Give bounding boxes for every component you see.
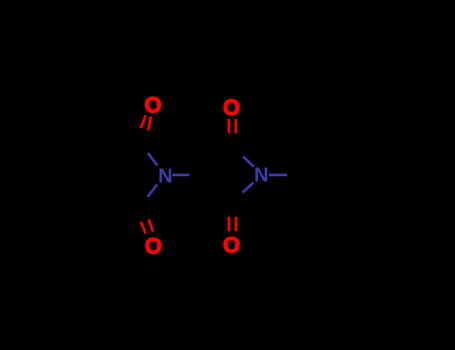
bond C1=O1 red half line b — [148, 117, 151, 131]
red visible bond halves — [141, 115, 236, 234]
wire bond phenyl ring — [313, 140, 333, 175]
wire bond C5-C6 — [27, 154, 30, 196]
wire bond C1=O1 black halves — [140, 128, 145, 141]
bond N2-C2' blue half — [243, 157, 254, 167]
wire bond C7a-C1 — [100, 141, 140, 154]
bond C3=O3 red half line b — [149, 219, 153, 231]
bond C5'=O4 red half line a — [228, 217, 231, 231]
svg-text:N: N — [158, 165, 172, 187]
wire bond C3=O3 black halves — [140, 209, 145, 222]
benzo ring of phthalimide (black, invisible on black bg) — [28, 126, 393, 223]
bond N1-C1 blue half — [148, 153, 158, 166]
wire bond C5'-N2 black half — [232, 188, 247, 202]
bond C1=O1 red half line a — [141, 115, 146, 128]
blue visible bond halves — [148, 153, 288, 197]
wire bond C1-N1 black half — [140, 141, 153, 158]
wire bond C3'-C5' — [214, 175, 233, 201]
svg-text:O: O — [144, 93, 161, 118]
wire bond C3'-C2' — [214, 147, 233, 175]
bond C5'=O4 red half line b — [235, 217, 238, 231]
svg-text:O: O — [223, 95, 240, 120]
wire bond C3-N1 black half — [140, 192, 153, 209]
wire bond C7a-C3a — [99, 154, 102, 196]
svg-text:N: N — [254, 165, 268, 187]
wire bond C3a-C3 — [100, 196, 140, 209]
wire bond C6-C7 — [28, 133, 64, 154]
bond C3=O3 red half line a — [141, 222, 146, 234]
wire bond C7-C7a — [64, 133, 100, 154]
wire bond N1-C3' black half — [189, 174, 213, 177]
bond N2-C5' blue half — [243, 183, 254, 193]
wire bond C2'-N2 black half — [232, 147, 247, 161]
svg-text:O: O — [223, 233, 240, 258]
wire bond C3a-C4 — [64, 196, 100, 217]
wire bond N2-Cipso black half — [287, 174, 313, 177]
bond N1-C3' blue half — [172, 174, 189, 177]
wire bond C5'=O4 black halves — [228, 202, 231, 217]
bond N1-C3 blue half — [148, 185, 158, 197]
bond N2-Cipso blue half — [269, 174, 287, 177]
wire bond C2'=O2 black halves — [228, 133, 231, 146]
bond C2'=O2 red half line b — [235, 119, 238, 133]
bond C2'=O2 red half line a — [228, 119, 231, 133]
svg-text:O: O — [145, 234, 162, 259]
wire bond C4-C5 — [28, 196, 64, 217]
